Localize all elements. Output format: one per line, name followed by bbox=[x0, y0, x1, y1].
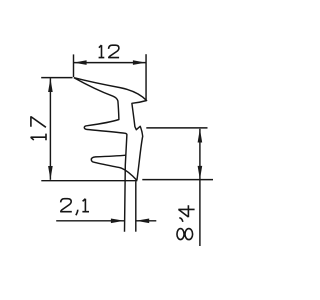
dimension 12: text "2" bbox=[109, 45, 120, 57]
dimension 2,1: right arrowhead (pointing left) bbox=[136, 219, 149, 224]
dimension 2,1: dimension line with left tail bbox=[56, 220, 124, 222]
profile: bottom fin (fin3) bbox=[91, 155, 137, 180]
dimension 17: top extension line bbox=[41, 77, 72, 79]
profile outline: top fin (beak) upper edge, right wall with notch bbox=[74, 78, 147, 181]
dimension 17: rotated text "7" bbox=[31, 116, 46, 127]
dimension 12: right arrowhead bbox=[133, 60, 146, 65]
dimension 2,1: text "2" bbox=[61, 199, 72, 212]
shared bottom extension line (17 / 8,4), left part through profile bottom bbox=[41, 180, 137, 182]
dimension 8,4: rotated text "4" bbox=[178, 205, 194, 217]
dimension 8,4: rotated comma bbox=[179, 218, 183, 222]
dimension 17: top arrowhead bbox=[48, 78, 53, 92]
dimension 12: left extension line bbox=[73, 54, 75, 77]
dimension 17: dimension line bbox=[49, 78, 51, 180]
dimension 2,1: right tail bbox=[136, 220, 156, 222]
dimension 8,4: bottom arrowhead (pointing down) bbox=[198, 166, 203, 180]
profile: fin1 lower edge, neck wall, middle fin (fin2), left wall down to 2,1 extension bbox=[74, 78, 127, 232]
dimension 2,1: comma bbox=[76, 210, 78, 216]
dimension 17: bottom arrowhead bbox=[48, 166, 53, 180]
dimension 17: rotated text "1" bbox=[31, 134, 46, 141]
dimension 2,1: left arrowhead (pointing right) bbox=[111, 219, 124, 224]
dimension 12: left arrowhead bbox=[74, 60, 87, 65]
dimension 8,4: rotated text "8" (two lobes) bbox=[177, 229, 184, 240]
shared bottom extension line, right part bbox=[142, 179, 213, 181]
dimension 8,4: top arrowhead (pointing up) bbox=[198, 129, 203, 143]
dimension 12: right extension line bbox=[145, 54, 147, 100]
dimension 2,1: text "1" bbox=[82, 199, 89, 212]
dimension 8,4: top extension line from notch bbox=[146, 127, 207, 129]
dimension 12: dimension line bbox=[74, 62, 147, 64]
dimension 12: text "1" bbox=[99, 45, 105, 58]
dimension 8,4: dimension line bbox=[199, 129, 201, 246]
dimension 2,1: left extension line continuation is the profile left wall; right extension line bbox=[135, 181, 137, 231]
